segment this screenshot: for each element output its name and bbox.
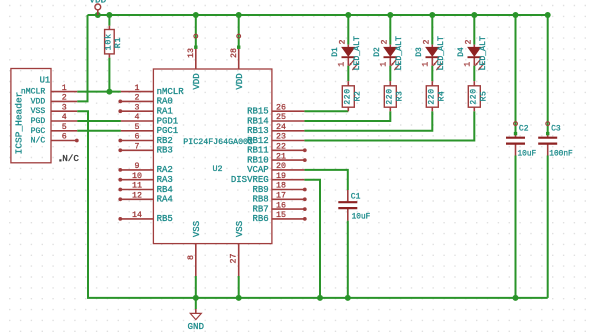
svg-text:17: 17 <box>276 192 286 201</box>
svg-text:24: 24 <box>276 123 286 132</box>
svg-text:LED_ALT: LED_ALT <box>353 36 362 70</box>
svg-text:RA3: RA3 <box>157 175 173 185</box>
svg-text:20: 20 <box>276 162 286 171</box>
svg-text:13: 13 <box>187 48 196 58</box>
svg-text:1: 1 <box>135 84 140 93</box>
svg-text:2: 2 <box>62 94 67 103</box>
svg-text:2: 2 <box>380 39 389 44</box>
svg-text:RB4: RB4 <box>157 185 173 195</box>
svg-text:16: 16 <box>276 201 286 210</box>
svg-text:PGD1: PGD1 <box>157 116 179 126</box>
svg-text:U1: U1 <box>40 76 51 86</box>
svg-text:VSS: VSS <box>192 221 202 237</box>
svg-text:9: 9 <box>135 162 140 171</box>
svg-text:220: 220 <box>343 88 352 104</box>
svg-text:D1: D1 <box>331 47 340 57</box>
svg-text:28: 28 <box>230 48 239 58</box>
svg-text:11: 11 <box>132 182 142 191</box>
svg-text:nMCLR: nMCLR <box>157 87 185 97</box>
svg-text:R1: R1 <box>114 37 123 49</box>
svg-text:R2: R2 <box>354 91 363 102</box>
svg-text:8: 8 <box>187 255 196 260</box>
svg-text:RB11: RB11 <box>247 146 269 156</box>
svg-text:PGC: PGC <box>31 127 46 136</box>
svg-text:1: 1 <box>337 62 346 67</box>
svg-text:RA1: RA1 <box>157 107 173 117</box>
svg-text:1: 1 <box>421 62 430 67</box>
svg-text:VDD: VDD <box>89 0 106 5</box>
svg-text:R5: R5 <box>480 91 489 102</box>
svg-text:VDD: VDD <box>192 73 202 89</box>
svg-text:VCAP: VCAP <box>247 165 269 175</box>
svg-text:22: 22 <box>276 143 286 152</box>
svg-text:2: 2 <box>338 39 347 44</box>
svg-text:10uF: 10uF <box>518 150 537 158</box>
svg-text:14: 14 <box>132 211 142 220</box>
svg-text:RB6: RB6 <box>252 214 268 224</box>
svg-text:19: 19 <box>276 172 286 181</box>
svg-text:RA0: RA0 <box>157 97 173 107</box>
svg-text:LED_ALT: LED_ALT <box>395 36 404 70</box>
svg-text:3: 3 <box>62 103 67 112</box>
svg-text:25: 25 <box>276 113 286 122</box>
svg-text:C2: C2 <box>519 125 529 134</box>
svg-text:2: 2 <box>464 39 473 44</box>
svg-text:RA4: RA4 <box>157 195 173 205</box>
svg-text:C1: C1 <box>351 193 361 202</box>
svg-text:RB8: RB8 <box>252 195 268 205</box>
svg-text:220: 220 <box>469 88 478 104</box>
svg-text:ICSP_Header: ICSP_Header <box>13 92 24 155</box>
svg-text:D4: D4 <box>457 47 466 57</box>
svg-text:N/C: N/C <box>31 137 46 146</box>
svg-text:27: 27 <box>230 254 239 264</box>
svg-text:220: 220 <box>427 88 436 104</box>
svg-text:4: 4 <box>135 113 140 122</box>
svg-text:RB3: RB3 <box>157 146 173 156</box>
svg-text:3: 3 <box>135 103 140 112</box>
svg-text:VDD: VDD <box>31 97 46 106</box>
svg-text:7: 7 <box>135 143 140 152</box>
svg-text:26: 26 <box>276 103 286 112</box>
svg-text:DISVREG: DISVREG <box>231 175 269 185</box>
svg-text:RB10: RB10 <box>247 155 269 165</box>
svg-text:N/C: N/C <box>62 153 79 164</box>
svg-text:U2: U2 <box>212 164 222 174</box>
svg-text:LED_ALT: LED_ALT <box>437 36 446 70</box>
svg-text:18: 18 <box>276 182 286 191</box>
svg-text:10uF: 10uF <box>352 213 371 221</box>
svg-text:D2: D2 <box>373 47 382 57</box>
svg-text:nMCLR: nMCLR <box>21 88 45 97</box>
svg-text:PIC24FJ64GA002: PIC24FJ64GA002 <box>183 138 253 147</box>
svg-text:1: 1 <box>62 84 67 93</box>
svg-text:2: 2 <box>422 39 431 44</box>
svg-text:GND: GND <box>188 321 205 332</box>
svg-text:R3: R3 <box>396 91 405 102</box>
svg-text:R4: R4 <box>438 91 447 102</box>
svg-text:PGC1: PGC1 <box>157 126 179 136</box>
svg-text:12: 12 <box>132 192 142 201</box>
svg-text:15: 15 <box>276 211 286 220</box>
svg-text:21: 21 <box>276 152 286 161</box>
svg-text:C3: C3 <box>551 125 561 134</box>
svg-text:100nF: 100nF <box>549 150 573 158</box>
svg-text:VSS: VSS <box>235 221 245 237</box>
svg-text:RB2: RB2 <box>157 136 173 146</box>
svg-text:10: 10 <box>132 172 142 181</box>
svg-text:6: 6 <box>135 133 140 142</box>
svg-text:5: 5 <box>135 123 140 132</box>
svg-text:RB5: RB5 <box>157 214 173 224</box>
svg-text:D3: D3 <box>415 47 424 57</box>
svg-text:1: 1 <box>379 62 388 67</box>
svg-text:RA2: RA2 <box>157 165 173 175</box>
svg-text:220: 220 <box>385 88 394 104</box>
svg-text:LED_ALT: LED_ALT <box>479 36 488 70</box>
svg-text:1: 1 <box>463 62 472 67</box>
svg-text:RB14: RB14 <box>247 116 269 126</box>
svg-text:4: 4 <box>62 113 67 122</box>
svg-text:RB13: RB13 <box>247 126 269 136</box>
svg-text:2: 2 <box>135 94 140 103</box>
svg-text:RB9: RB9 <box>252 185 268 195</box>
svg-text:6: 6 <box>62 133 67 142</box>
svg-text:10k: 10k <box>103 33 113 50</box>
svg-text:VDD: VDD <box>235 73 245 89</box>
svg-text:23: 23 <box>276 133 286 142</box>
svg-text:PGD: PGD <box>31 117 46 126</box>
svg-text:RB7: RB7 <box>252 204 268 214</box>
svg-text:VSS: VSS <box>31 107 46 116</box>
svg-text:5: 5 <box>62 123 67 132</box>
svg-text:RB15: RB15 <box>247 107 269 117</box>
